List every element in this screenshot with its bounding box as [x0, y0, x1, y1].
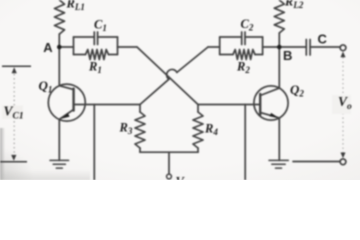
svg-text:C: C — [318, 32, 328, 47]
svg-text:VBB: VBB — [176, 175, 196, 181]
svg-text:R4: R4 — [204, 122, 218, 138]
svg-text:B: B — [283, 48, 292, 63]
svg-text:R3: R3 — [119, 121, 133, 137]
svg-text:Q1: Q1 — [39, 78, 53, 95]
svg-text:C2: C2 — [241, 17, 254, 33]
svg-text:C1: C1 — [94, 18, 107, 34]
svg-text:RL2: RL2 — [284, 0, 304, 10]
svg-text:A: A — [43, 40, 53, 55]
svg-text:R2: R2 — [236, 60, 250, 76]
svg-text:RL1: RL1 — [66, 0, 85, 12]
svg-text:Q2: Q2 — [290, 82, 304, 99]
svg-text:R1: R1 — [88, 60, 102, 76]
